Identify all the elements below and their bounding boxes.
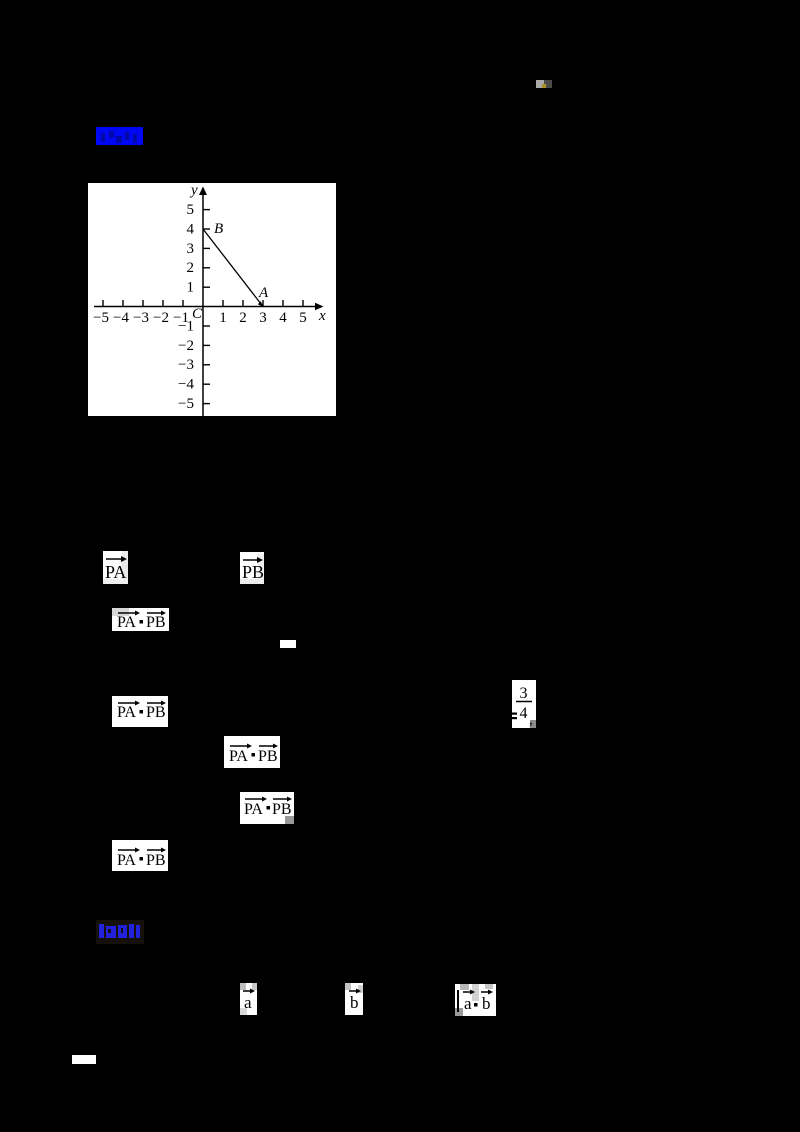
svg-text:3: 3 [187,241,195,257]
svg-text:a: a [244,993,252,1012]
svg-text:b: b [482,994,491,1013]
formula image: vector b [345,983,363,1015]
icon (small grey web icon with yellow dot) [536,80,544,88]
svg-text:C: C [192,306,203,322]
svg-text:PA: PA [117,614,136,631]
formula image: |a dot b| [455,984,496,1016]
svg-text:x: x [318,308,326,324]
page footer marker [72,1055,96,1064]
formula image: PA dot PB (1) [112,608,169,631]
figure: coordinate plane with segment AB [88,183,336,416]
svg-text:2: 2 [187,260,195,276]
segment B(0,4) to A(3,0) [203,229,263,307]
svg-text:−5: −5 [178,396,194,412]
svg-text:PB: PB [146,704,166,721]
label [example 1] blue highlight [96,127,143,145]
svg-text:−2: −2 [153,310,169,326]
svg-text:−4: −4 [113,310,129,326]
svg-text:−2: −2 [178,338,194,354]
svg-text:a: a [464,994,472,1013]
svg-text:PA: PA [117,704,136,721]
small white fragment [280,640,296,648]
svg-text:1: 1 [187,280,195,296]
svg-text:3: 3 [520,685,528,702]
svg-text:3: 3 [259,310,267,326]
svg-text:PB: PB [146,614,166,631]
svg-text:B: B [214,221,223,237]
svg-text:PB: PB [242,562,264,582]
svg-text:PB: PB [258,748,278,765]
formula image: vector PA [103,551,128,584]
svg-text:−3: −3 [133,310,149,326]
svg-text:y: y [189,183,198,199]
formula image: = 3/4 , [512,680,536,728]
y ticks [203,210,210,404]
svg-text:,: , [529,712,533,728]
svg-text:PA: PA [229,748,248,765]
svg-text:−4: −4 [178,377,194,393]
svg-text:1: 1 [219,310,227,326]
x ticks [103,300,303,307]
svg-text:4: 4 [187,221,195,237]
svg-text:PA: PA [117,852,136,869]
svg-text:PB: PB [146,852,166,869]
formula image: PA dot PB (3) [224,736,280,768]
svg-text:b: b [350,993,359,1012]
svg-text:−3: −3 [178,357,194,373]
svg-text:A: A [258,285,269,301]
svg-text:PA: PA [244,801,263,818]
svg-text:PA: PA [105,562,126,582]
formula image: PA dot PB (2) [112,696,168,727]
svg-text:4: 4 [520,705,528,722]
formula image: vector PB [240,552,264,584]
y tick labels [178,202,194,412]
svg-text:4: 4 [279,310,287,326]
svg-text:5: 5 [299,310,307,326]
formula image: PA dot PB (5) [112,840,168,871]
formula image: vector a [240,983,257,1015]
axis letter labels [189,183,326,325]
svg-text:2: 2 [239,310,247,326]
svg-text:−5: −5 [93,310,109,326]
label [example 2] dark highlight with blue text [96,920,144,944]
x tick labels [93,310,307,326]
svg-text:5: 5 [187,202,195,218]
svg-text:PB: PB [272,801,292,818]
x axis [94,306,316,308]
formula image: PA dot PB (4) [240,792,294,824]
y axis [202,192,204,416]
